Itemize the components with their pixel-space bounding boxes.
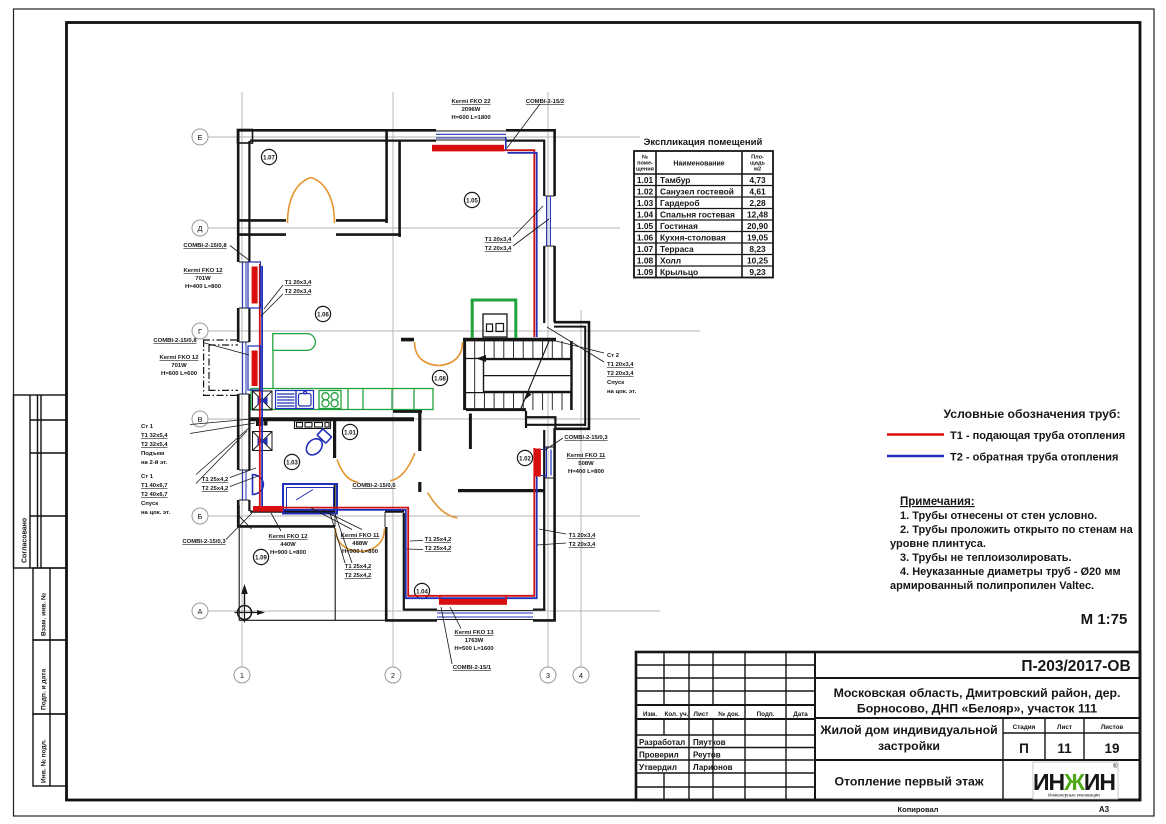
svg-text:1.04: 1.04 bbox=[637, 210, 654, 220]
svg-text:Отопление первый этаж: Отопление первый этаж bbox=[834, 775, 983, 789]
T1 supply pipe east lower run bbox=[260, 264, 535, 596]
svg-text:Инженерные инновации: Инженерные инновации bbox=[1048, 793, 1100, 798]
svg-text:COMBI-2-15/0,8: COMBI-2-15/0,8 bbox=[153, 338, 197, 344]
svg-text:2. Трубы проложить открыто по: 2. Трубы проложить открыто по стенам на bbox=[900, 524, 1134, 536]
svg-text:Инв. № подл.: Инв. № подл. bbox=[41, 739, 48, 783]
svg-text:1.03: 1.03 bbox=[286, 460, 298, 466]
svg-text:Дата: Дата bbox=[793, 711, 808, 718]
ventilation grille bbox=[295, 421, 331, 429]
porch outline bbox=[239, 505, 386, 621]
corner column top-left bbox=[238, 130, 253, 144]
leader to north radiator bbox=[507, 104, 540, 148]
svg-text:19: 19 bbox=[1104, 741, 1119, 756]
east lower window sills bbox=[545, 447, 555, 478]
east wall inner line bbox=[543, 140, 545, 323]
north window sill lines bbox=[436, 131, 506, 140]
T2 return pipe east lower run bbox=[262, 266, 537, 598]
axis bubble 3 bbox=[540, 667, 556, 683]
svg-text:Лист: Лист bbox=[694, 711, 709, 718]
leader combi bath bbox=[226, 513, 252, 540]
svg-text:701W: 701W bbox=[195, 276, 211, 282]
svg-text:на цок. эт.: на цок. эт. bbox=[141, 510, 170, 516]
svg-text:Т1 20х3,4: Т1 20х3,4 bbox=[285, 280, 312, 286]
svg-text:Гардероб: Гардероб bbox=[660, 198, 700, 208]
window glazing west top bbox=[243, 262, 246, 308]
svg-text:Т1 25х4,2: Т1 25х4,2 bbox=[202, 477, 229, 483]
balcony bay dash-dot outline bbox=[203, 340, 238, 395]
svg-text:Т1 25х4,2: Т1 25х4,2 bbox=[425, 537, 452, 543]
svg-text:Т1 20х3,4: Т1 20х3,4 bbox=[485, 237, 512, 243]
shut-off valve box kitchen bbox=[253, 391, 273, 410]
svg-text:Т1 - подающая труба отопления: Т1 - подающая труба отопления bbox=[950, 430, 1125, 442]
leaders left St1 blocks bbox=[190, 419, 255, 484]
svg-text:м2: м2 bbox=[754, 167, 761, 173]
svg-text:COMBI-2-15/0,3: COMBI-2-15/0,3 bbox=[564, 435, 608, 441]
svg-text:1.09: 1.09 bbox=[637, 267, 654, 277]
svg-text:Утвердил: Утвердил bbox=[639, 763, 677, 772]
svg-text:Условные обозначения труб:: Условные обозначения труб: bbox=[943, 407, 1120, 421]
svg-text:Kermi FKO 12: Kermi FKO 12 bbox=[184, 268, 224, 274]
svg-text:2096W: 2096W bbox=[462, 107, 481, 113]
svg-text:3: 3 bbox=[546, 671, 550, 680]
svg-text:2: 2 bbox=[391, 671, 395, 680]
riser mark squares bbox=[256, 420, 262, 426]
kitchen sink cabinet bbox=[276, 391, 314, 409]
svg-text:Kermi FKO 11: Kermi FKO 11 bbox=[341, 533, 380, 539]
svg-text:COMBI-2-15/2: COMBI-2-15/2 bbox=[526, 99, 565, 105]
room schedule table grid bbox=[634, 151, 773, 278]
axis bubble Б bbox=[192, 508, 208, 524]
svg-text:1.08: 1.08 bbox=[637, 256, 654, 266]
axis bubble 4 bbox=[573, 667, 589, 683]
radiator kitchen west upper bbox=[252, 267, 258, 304]
axis bubble 2 bbox=[385, 667, 401, 683]
svg-text:Kermi FKO 13: Kermi FKO 13 bbox=[455, 630, 495, 636]
label riser St1 upper bbox=[141, 424, 168, 466]
bathroom east wall bbox=[333, 421, 336, 458]
stair well east wall bbox=[570, 341, 573, 410]
svg-text:Борносово, ДНП «Белояр», участ: Борносово, ДНП «Белояр», участок 111 bbox=[857, 702, 1097, 716]
svg-text:1.02: 1.02 bbox=[637, 187, 654, 197]
bathroom door arc bbox=[337, 460, 359, 483]
svg-text:1.02: 1.02 bbox=[519, 456, 531, 462]
leader combi bedroom bbox=[441, 607, 452, 664]
north wall outer line bbox=[237, 129, 556, 132]
svg-text:9,23: 9,23 bbox=[749, 267, 766, 277]
label riser St2 bbox=[607, 353, 636, 395]
svg-text:1. Трубы отнесены от стен усло: 1. Трубы отнесены от стен условно. bbox=[900, 510, 1097, 522]
radiator bathroom south bbox=[253, 506, 283, 512]
svg-text:на цок. эт.: на цок. эт. bbox=[607, 389, 636, 395]
svg-text:12,48: 12,48 bbox=[747, 210, 768, 220]
terrace double door arcs bbox=[288, 178, 335, 224]
axis bubble 1 bbox=[234, 667, 250, 683]
svg-text:440W: 440W bbox=[280, 542, 296, 548]
svg-text:на 2-й эт.: на 2-й эт. bbox=[141, 459, 168, 466]
west window sill lines bbox=[239, 262, 249, 500]
window glazing east upper bbox=[547, 196, 551, 246]
partition terrace/living room west line bbox=[385, 129, 388, 223]
svg-text:Т2 25х4,2: Т2 25х4,2 bbox=[425, 546, 452, 552]
leaders bedroom T1/T2 bbox=[407, 541, 423, 550]
leader Kermi bath left bbox=[271, 513, 281, 531]
bathtub bbox=[283, 484, 337, 514]
svg-text:Гостиная: Гостиная bbox=[660, 221, 698, 231]
east wall lower inner line bbox=[543, 430, 545, 610]
leader combi west upper bbox=[230, 246, 250, 262]
svg-text:В: В bbox=[197, 415, 202, 424]
svg-text:1.05: 1.05 bbox=[637, 221, 654, 231]
room number bubbles bbox=[253, 149, 532, 598]
svg-text:Ст 2: Ст 2 bbox=[607, 353, 620, 359]
axis bubble Г bbox=[192, 323, 208, 339]
svg-text:Kermi FKO 12: Kermi FKO 12 bbox=[269, 534, 309, 540]
svg-text:Т2 32х5,4: Т2 32х5,4 bbox=[141, 442, 168, 448]
legend T2 blue line bbox=[887, 455, 944, 458]
svg-text:1.06: 1.06 bbox=[317, 312, 329, 318]
svg-text:H=400 L=800: H=400 L=800 bbox=[568, 469, 605, 475]
svg-text:Подп.: Подп. bbox=[757, 711, 775, 718]
svg-text:Г: Г bbox=[198, 327, 202, 336]
south wall of bedroom inner bbox=[404, 608, 545, 610]
svg-text:Московская область, Дмитровски: Московская область, Дмитровский район, д… bbox=[834, 686, 1121, 700]
kitchen counter bbox=[251, 389, 433, 410]
svg-text:Т2 20х3,4: Т2 20х3,4 bbox=[285, 289, 312, 295]
svg-text:Kermi FKO 22: Kermi FKO 22 bbox=[452, 99, 492, 105]
svg-text:Крыльцо: Крыльцо bbox=[660, 267, 698, 277]
toilet bbox=[303, 428, 332, 458]
svg-text:Терраса: Терраса bbox=[660, 244, 694, 254]
svg-text:1.01: 1.01 bbox=[637, 175, 654, 185]
svg-text:1.05: 1.05 bbox=[466, 198, 478, 204]
shut-off valve box bathroom bbox=[253, 432, 273, 451]
window glazing west bay bbox=[243, 342, 246, 394]
svg-text:Жилой дом индивидуальной: Жилой дом индивидуальной bbox=[819, 723, 997, 737]
svg-text:H=400 L=800: H=400 L=800 bbox=[185, 284, 222, 290]
svg-text:1.07: 1.07 bbox=[637, 244, 654, 254]
svg-text:2,28: 2,28 bbox=[749, 198, 766, 208]
svg-text:H=500 L=1600: H=500 L=1600 bbox=[454, 646, 494, 652]
svg-text:1.04: 1.04 bbox=[416, 589, 428, 595]
svg-text:Реутов: Реутов bbox=[693, 751, 721, 760]
svg-text:Подъем: Подъем bbox=[141, 451, 164, 457]
kitchen stove bbox=[319, 391, 341, 409]
wash basin bbox=[253, 475, 264, 495]
stair treads bbox=[465, 341, 571, 410]
svg-text:П-203/2017-ОВ: П-203/2017-ОВ bbox=[1021, 658, 1130, 675]
title block outer bbox=[636, 652, 1140, 800]
header cells bbox=[636, 155, 765, 173]
svg-text:Проверил: Проверил bbox=[639, 751, 679, 760]
table rows bbox=[637, 175, 768, 277]
radiator bedroom south bbox=[439, 599, 507, 605]
svg-text:П: П bbox=[1019, 741, 1029, 756]
svg-text:19,05: 19,05 bbox=[747, 233, 768, 243]
leader Kermi 13 bbox=[450, 607, 461, 629]
svg-text:H=900 L=800: H=900 L=800 bbox=[270, 550, 307, 556]
stair well west wall bbox=[463, 339, 466, 410]
svg-text:4,61: 4,61 bbox=[749, 187, 766, 197]
T1 supply pipe top run bbox=[504, 150, 534, 337]
svg-text:щения: щения bbox=[636, 167, 654, 173]
svg-text:1.03: 1.03 bbox=[637, 198, 654, 208]
svg-text:Ларионов: Ларионов bbox=[693, 763, 733, 772]
tambour door arc bbox=[390, 453, 415, 481]
stair break line bbox=[521, 341, 550, 410]
axis bubble Е bbox=[192, 129, 208, 145]
svg-text:Копировал: Копировал bbox=[898, 805, 939, 814]
box Подп. и дата bbox=[33, 640, 67, 714]
svg-text:11: 11 bbox=[1057, 741, 1072, 756]
svg-text:H=600 L=600: H=600 L=600 bbox=[161, 371, 198, 377]
svg-text:Листов: Листов bbox=[1101, 724, 1124, 731]
svg-text:8,23: 8,23 bbox=[749, 244, 766, 254]
leader combi bay bbox=[203, 343, 249, 356]
svg-text:COMBI-2-15/0,3: COMBI-2-15/0,3 bbox=[182, 539, 226, 545]
stair hall south wall bbox=[466, 408, 526, 411]
row gridlines А-Е bbox=[208, 136, 640, 138]
svg-text:Т2 20х3,4: Т2 20х3,4 bbox=[485, 246, 512, 252]
svg-text:1: 1 bbox=[240, 671, 244, 680]
radiator living room north bbox=[432, 145, 504, 152]
east wall outer line bbox=[553, 129, 556, 322]
guest wc west wall bbox=[469, 414, 472, 450]
svg-text:Стадия: Стадия bbox=[1013, 724, 1036, 731]
svg-text:20,90: 20,90 bbox=[747, 221, 768, 231]
kitchen island counter bbox=[273, 334, 316, 388]
svg-text:COMBI-2-15/0,6: COMBI-2-15/0,6 bbox=[352, 483, 396, 489]
svg-text:Подп. и дата: Подп. и дата bbox=[41, 669, 48, 710]
svg-text:М 1:75: М 1:75 bbox=[1081, 611, 1128, 628]
title block grid right part bbox=[815, 678, 1140, 760]
svg-text:Т2 - обратная труба отопления: Т2 - обратная труба отопления bbox=[950, 452, 1118, 464]
leaders kitchen T1/T2 bbox=[230, 468, 258, 487]
terrace south double wall lower band bbox=[238, 233, 401, 236]
T2 return pipe top run bbox=[508, 153, 537, 337]
west wall inner line bbox=[248, 141, 250, 511]
svg-text:Т1 25х4,2: Т1 25х4,2 bbox=[345, 564, 372, 570]
svg-text:Санузел гостевой: Санузел гостевой bbox=[660, 187, 734, 197]
entry opening jambs bbox=[335, 511, 385, 527]
svg-text:1.06: 1.06 bbox=[637, 233, 654, 243]
svg-text:1.08: 1.08 bbox=[434, 376, 446, 382]
axis bubble А bbox=[192, 603, 208, 619]
svg-text:Кухня-столовая: Кухня-столовая bbox=[660, 233, 726, 243]
corridor south wall bbox=[458, 489, 545, 492]
box Взам. инв. № bbox=[33, 568, 67, 640]
column gridlines 1-4 bbox=[208, 92, 700, 667]
entry porch double door arcs bbox=[336, 529, 385, 552]
svg-text:Экспликация помещений: Экспликация помещений bbox=[644, 137, 763, 148]
stair flight separators bbox=[465, 359, 571, 393]
radiator bay west bbox=[252, 351, 258, 387]
svg-text:Т1 32х5,4: Т1 32х5,4 bbox=[141, 433, 168, 439]
west wall outer line bbox=[237, 129, 240, 528]
kitchen/bathroom partition wall bbox=[250, 417, 414, 421]
bathroom/tambour lower stub bbox=[334, 483, 336, 512]
svg-text:Примечания:: Примечания: bbox=[900, 496, 975, 508]
svg-text:ИНЖИН: ИНЖИН bbox=[1033, 769, 1115, 795]
svg-text:Изм.: Изм. bbox=[643, 711, 657, 718]
svg-text:Kermi FKO 11: Kermi FKO 11 bbox=[567, 453, 606, 459]
east window sill lines bbox=[545, 196, 555, 246]
leaders riser St2 bbox=[547, 327, 604, 362]
partition terrace/living room east line bbox=[398, 141, 401, 237]
svg-text:Kermi FKO 12: Kermi FKO 12 bbox=[160, 355, 200, 361]
svg-text:Т1 20х3,4: Т1 20х3,4 bbox=[569, 533, 596, 539]
bedroom west wall outer bbox=[385, 527, 388, 622]
svg-text:Спуск: Спуск bbox=[607, 380, 624, 386]
radiator guest wc east bbox=[534, 449, 541, 477]
svg-text:COMBI-2-15/1: COMBI-2-15/1 bbox=[453, 665, 492, 671]
window glazing north bbox=[436, 134, 506, 138]
window glazing west bottom bbox=[243, 470, 246, 500]
svg-text:Холл: Холл bbox=[660, 256, 681, 266]
leaders bath T1/T2 bbox=[330, 513, 352, 563]
leaders east pipe T1/T2 bedroom wall bbox=[537, 529, 566, 545]
window glazing south bbox=[437, 613, 533, 617]
svg-text:H=600 L=1800: H=600 L=1800 bbox=[451, 115, 491, 121]
signature rows bbox=[639, 738, 733, 772]
svg-text:Ст 1: Ст 1 bbox=[141, 474, 154, 480]
svg-text:Б: Б bbox=[198, 512, 203, 521]
svg-text:Т1 20х3,4: Т1 20х3,4 bbox=[607, 362, 634, 368]
bedroom door arc bbox=[428, 493, 458, 518]
svg-text:Т2 20х3,4: Т2 20х3,4 bbox=[607, 371, 634, 377]
svg-text:COMBI-2-15/0,8: COMBI-2-15/0,8 bbox=[183, 243, 227, 249]
title block grid left part bbox=[636, 652, 1140, 800]
svg-text:1.09: 1.09 bbox=[255, 555, 267, 561]
svg-text:Е: Е bbox=[197, 133, 202, 142]
leaders riser T1/T2 west bbox=[261, 285, 283, 316]
svg-text:508W: 508W bbox=[578, 461, 594, 467]
svg-text:А: А bbox=[197, 607, 202, 616]
svg-text:Лист: Лист bbox=[1057, 724, 1072, 731]
svg-text:Кол. уч.: Кол. уч. bbox=[665, 711, 689, 718]
svg-text:А3: А3 bbox=[1099, 805, 1110, 814]
logo INZHIN bbox=[1033, 762, 1118, 799]
label riser St1 lower bbox=[141, 474, 170, 516]
svg-text:1.01: 1.01 bbox=[344, 430, 356, 436]
stage/sheet values bbox=[1019, 741, 1119, 756]
hall/tambour partition piece bbox=[393, 410, 422, 413]
svg-text:Разработал: Разработал bbox=[639, 738, 685, 747]
stage/sheet header bbox=[1013, 724, 1124, 731]
fireplace green surround bbox=[472, 300, 516, 338]
svg-text:10,25: 10,25 bbox=[747, 256, 768, 266]
legend T1 red line bbox=[887, 433, 944, 436]
axis bubble Д bbox=[192, 220, 208, 236]
south-west wall inner bbox=[250, 511, 404, 513]
svg-text:3. Трубы не теплоизолировать.: 3. Трубы не теплоизолировать. bbox=[900, 552, 1072, 564]
north wall inner line bbox=[250, 140, 545, 142]
tambour east wall bbox=[418, 411, 421, 451]
svg-text:®: ® bbox=[1113, 763, 1118, 770]
leaders right T1/T2 labels bbox=[513, 206, 549, 246]
axis bubble В bbox=[192, 411, 208, 427]
terrace south double wall upper band bbox=[238, 219, 386, 222]
box Инв. № подл. bbox=[33, 714, 67, 786]
svg-text:4,73: 4,73 bbox=[749, 175, 766, 185]
svg-text:1.07: 1.07 bbox=[263, 155, 275, 161]
stair walk line with arrow bbox=[482, 358, 560, 360]
svg-text:Тамбур: Тамбур bbox=[660, 175, 690, 185]
svg-text:Наименование: Наименование bbox=[673, 161, 724, 168]
svg-text:Д: Д bbox=[197, 224, 202, 233]
bedroom west wall inner bbox=[403, 513, 405, 611]
header row labels bbox=[643, 711, 808, 718]
svg-text:488W: 488W bbox=[352, 541, 368, 547]
stair landing bbox=[484, 360, 572, 392]
svg-text:Спуск: Спуск bbox=[141, 501, 158, 507]
stair bay bottom wall bbox=[556, 427, 590, 430]
svg-text:1763W: 1763W bbox=[465, 638, 484, 644]
living room south wall bbox=[401, 338, 556, 342]
north / benchmark symbol bbox=[235, 584, 266, 623]
svg-text:№ док.: № док. bbox=[718, 711, 740, 718]
living room double door arcs bbox=[415, 342, 463, 366]
svg-text:Спальня гостевая: Спальня гостевая bbox=[660, 210, 735, 220]
svg-text:армированный полипропилен Valt: армированный полипропилен Valtec. bbox=[890, 580, 1094, 592]
stair bay east wall bbox=[588, 322, 591, 431]
south-west wall outer bbox=[237, 525, 335, 528]
leaders Kermi bath right bbox=[311, 508, 362, 530]
svg-text:Т2 25х4,2: Т2 25х4,2 bbox=[345, 573, 372, 579]
south wall of bedroom outer bbox=[385, 619, 556, 622]
svg-text:Ст 1: Ст 1 bbox=[141, 424, 154, 430]
svg-text:Т1 40х6,7: Т1 40х6,7 bbox=[141, 483, 168, 489]
svg-text:Т2 25х4,2: Т2 25х4,2 bbox=[202, 486, 229, 492]
svg-text:Т2 20х3,4: Т2 20х3,4 bbox=[569, 542, 596, 548]
svg-text:Пяутков: Пяутков bbox=[693, 738, 726, 747]
leader combi wc bbox=[545, 438, 563, 450]
stair bay top wall bbox=[554, 321, 590, 324]
svg-text:уровне плинтуса.: уровне плинтуса. bbox=[890, 538, 986, 550]
svg-text:застройки: застройки bbox=[878, 739, 940, 753]
svg-text:H=900 L=800: H=900 L=800 bbox=[342, 549, 379, 555]
porch step diagonal bbox=[239, 516, 252, 529]
approval stamp table (Согласовано) bbox=[14, 395, 67, 568]
svg-text:4. Неуказанные диаметры труб -: 4. Неуказанные диаметры труб - Ø20 мм bbox=[900, 566, 1121, 578]
south window sills bbox=[437, 610, 533, 619]
fireplace insert bbox=[483, 314, 507, 337]
svg-text:Согласовано: Согласовано bbox=[22, 518, 29, 563]
svg-text:4: 4 bbox=[579, 671, 583, 680]
svg-text:Т2 40х6,7: Т2 40х6,7 bbox=[141, 492, 168, 498]
east wall lower outer line bbox=[553, 428, 556, 622]
svg-text:701W: 701W bbox=[171, 363, 187, 369]
svg-text:Взам. инв. №: Взам. инв. № bbox=[41, 593, 48, 636]
